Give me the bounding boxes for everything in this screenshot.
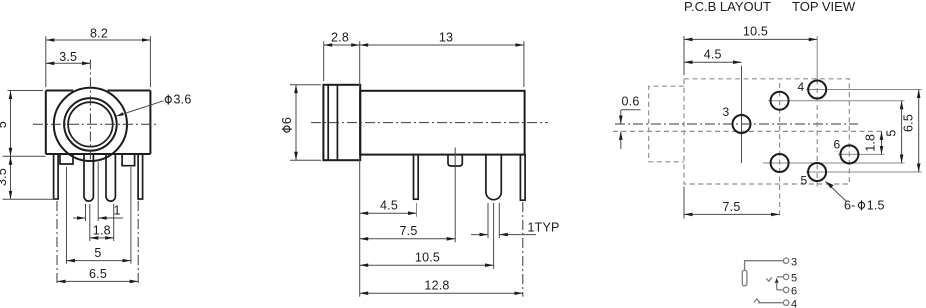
dim 6.5 bottom — [57, 201, 138, 284]
front outer circle — [54, 88, 127, 161]
hole labels — [723, 80, 841, 188]
schematic terminal 5 — [783, 273, 797, 285]
svg-text:10.5: 10.5 — [415, 251, 440, 265]
schematic wire to terminal 4 — [758, 302, 783, 304]
svg-text:TOP VIEW: TOP VIEW — [792, 0, 856, 14]
svg-text:13: 13 — [439, 31, 453, 45]
pcb column centerline 4-5 — [816, 36, 818, 187]
pcb hole 3 — [733, 115, 751, 133]
svg-text:6-: 6- — [844, 198, 856, 212]
schematic wire to terminal 3 — [745, 261, 783, 270]
front left pin — [54, 154, 59, 199]
front horizontal centerline — [33, 123, 158, 125]
dim 4.5 side — [360, 199, 417, 217]
svg-text:2.8: 2.8 — [331, 31, 349, 45]
pcb hole 4 — [808, 81, 826, 99]
front right pin — [138, 154, 143, 199]
pcb column centerline mid — [779, 83, 781, 219]
side pin 3 — [486, 155, 501, 200]
svg-text:4.5: 4.5 — [380, 199, 398, 213]
dim 6.5 pcb right — [902, 90, 919, 173]
schematic terminal 3 — [783, 257, 797, 269]
svg-text:5: 5 — [94, 246, 101, 260]
pcb row line hole2 — [768, 100, 905, 102]
svg-text:3: 3 — [723, 105, 730, 119]
side pin 1 — [414, 155, 419, 200]
svg-text:5: 5 — [791, 273, 797, 285]
dim 1 bottom — [73, 162, 123, 221]
dim 1.8 bottom — [90, 204, 114, 241]
svg-text:7.5: 7.5 — [723, 200, 741, 214]
label 6-phi1.5 leader — [826, 182, 885, 213]
front inner hole circle — [68, 102, 113, 147]
schematic terminal 6 — [783, 286, 797, 298]
schematic terminal 5 wire — [777, 276, 783, 278]
svg-text:6.5: 6.5 — [902, 114, 916, 132]
pcb row line hole4 — [806, 89, 922, 91]
dim 10.5 side — [360, 203, 494, 269]
pcb body dashed rect — [684, 79, 849, 184]
front right stub — [122, 154, 135, 166]
dim 5 pcb right — [884, 101, 901, 163]
pcb hole 5 — [808, 163, 826, 181]
pcb offset dashed line B — [613, 130, 885, 132]
svg-text:1.5: 1.5 — [867, 198, 885, 212]
svg-text:1.8: 1.8 — [93, 223, 111, 237]
svg-text:5: 5 — [801, 174, 808, 188]
svg-text:1TYP: 1TYP — [528, 220, 560, 234]
side centerline — [311, 122, 548, 124]
dim 10.5 pcb — [684, 25, 817, 75]
svg-text:3.6: 3.6 — [174, 93, 192, 107]
svg-text:6.5: 6.5 — [89, 267, 107, 281]
svg-text:6: 6 — [834, 138, 841, 152]
svg-text:12.8: 12.8 — [424, 278, 449, 292]
title text — [684, 0, 856, 14]
dim 3.5 top — [46, 50, 91, 64]
pcb hole3 column line — [741, 66, 743, 163]
dim 0.6 pcb — [621, 94, 641, 149]
side left extension line — [359, 157, 361, 297]
dim 3.5 left — [0, 156, 58, 199]
front body outline — [46, 91, 151, 155]
pcb hole 6 — [840, 145, 858, 163]
schematic switch arm — [766, 277, 783, 290]
front left stub — [60, 154, 73, 164]
schematic terminal 4 — [783, 299, 797, 308]
dim 7.5 pcb — [684, 187, 780, 219]
svg-text:4: 4 — [791, 299, 797, 308]
svg-text:6: 6 — [280, 117, 294, 124]
front ring circle — [64, 98, 117, 151]
pcb jack axis centerline — [615, 123, 858, 125]
side bushing outline — [323, 85, 360, 160]
svg-text:7.5: 7.5 — [400, 224, 418, 238]
dim phi 6 left — [280, 85, 321, 160]
dim 4.5 pcb — [684, 48, 742, 63]
svg-text:1: 1 — [114, 204, 121, 218]
pcb hole bottom middle — [771, 154, 789, 172]
side body outline — [360, 91, 524, 155]
dim 13 top — [360, 31, 524, 88]
svg-text:6: 6 — [791, 286, 797, 298]
dim 7.5 side — [360, 148, 456, 243]
dim 12.8 side — [360, 202, 523, 297]
front middle pin A — [84, 154, 93, 201]
svg-text:1.8: 1.8 — [863, 134, 877, 152]
side pin 4 — [520, 155, 525, 201]
dim 2.8 top — [324, 31, 360, 88]
front vertical centerline — [89, 60, 91, 161]
schematic tip contact bar — [742, 270, 747, 285]
front middle pin B — [106, 154, 115, 201]
dim 8.2 top — [46, 26, 151, 87]
svg-text:0.6: 0.6 — [622, 94, 640, 108]
side stub — [448, 155, 462, 166]
pcb bushing dashed rect — [649, 86, 684, 162]
pcb row line hole6 — [838, 153, 885, 155]
dim 5 left — [0, 91, 46, 157]
svg-text:P.C.B LAYOUT: P.C.B LAYOUT — [684, 0, 771, 14]
dim 1.8 pcb right — [863, 131, 881, 154]
pcb hole 2 top middle — [771, 92, 789, 110]
dim 5 bottom — [67, 167, 131, 264]
svg-text:4: 4 — [798, 80, 805, 94]
svg-text:3.5: 3.5 — [0, 168, 9, 186]
svg-text:10.5: 10.5 — [743, 25, 768, 39]
svg-text:8.2: 8.2 — [90, 26, 108, 40]
label phi 3.6 leader — [116, 93, 191, 117]
schematic sleeve chevron — [754, 299, 760, 303]
pcb row line bottom middle — [763, 162, 905, 164]
svg-text:5: 5 — [884, 129, 898, 136]
svg-text:3: 3 — [791, 257, 797, 269]
svg-text:4.5: 4.5 — [704, 48, 722, 62]
pcb row line hole5 — [806, 171, 922, 173]
svg-text:3.5: 3.5 — [59, 50, 77, 64]
dim 1 TYP side — [471, 203, 560, 238]
svg-text:5: 5 — [0, 121, 9, 128]
